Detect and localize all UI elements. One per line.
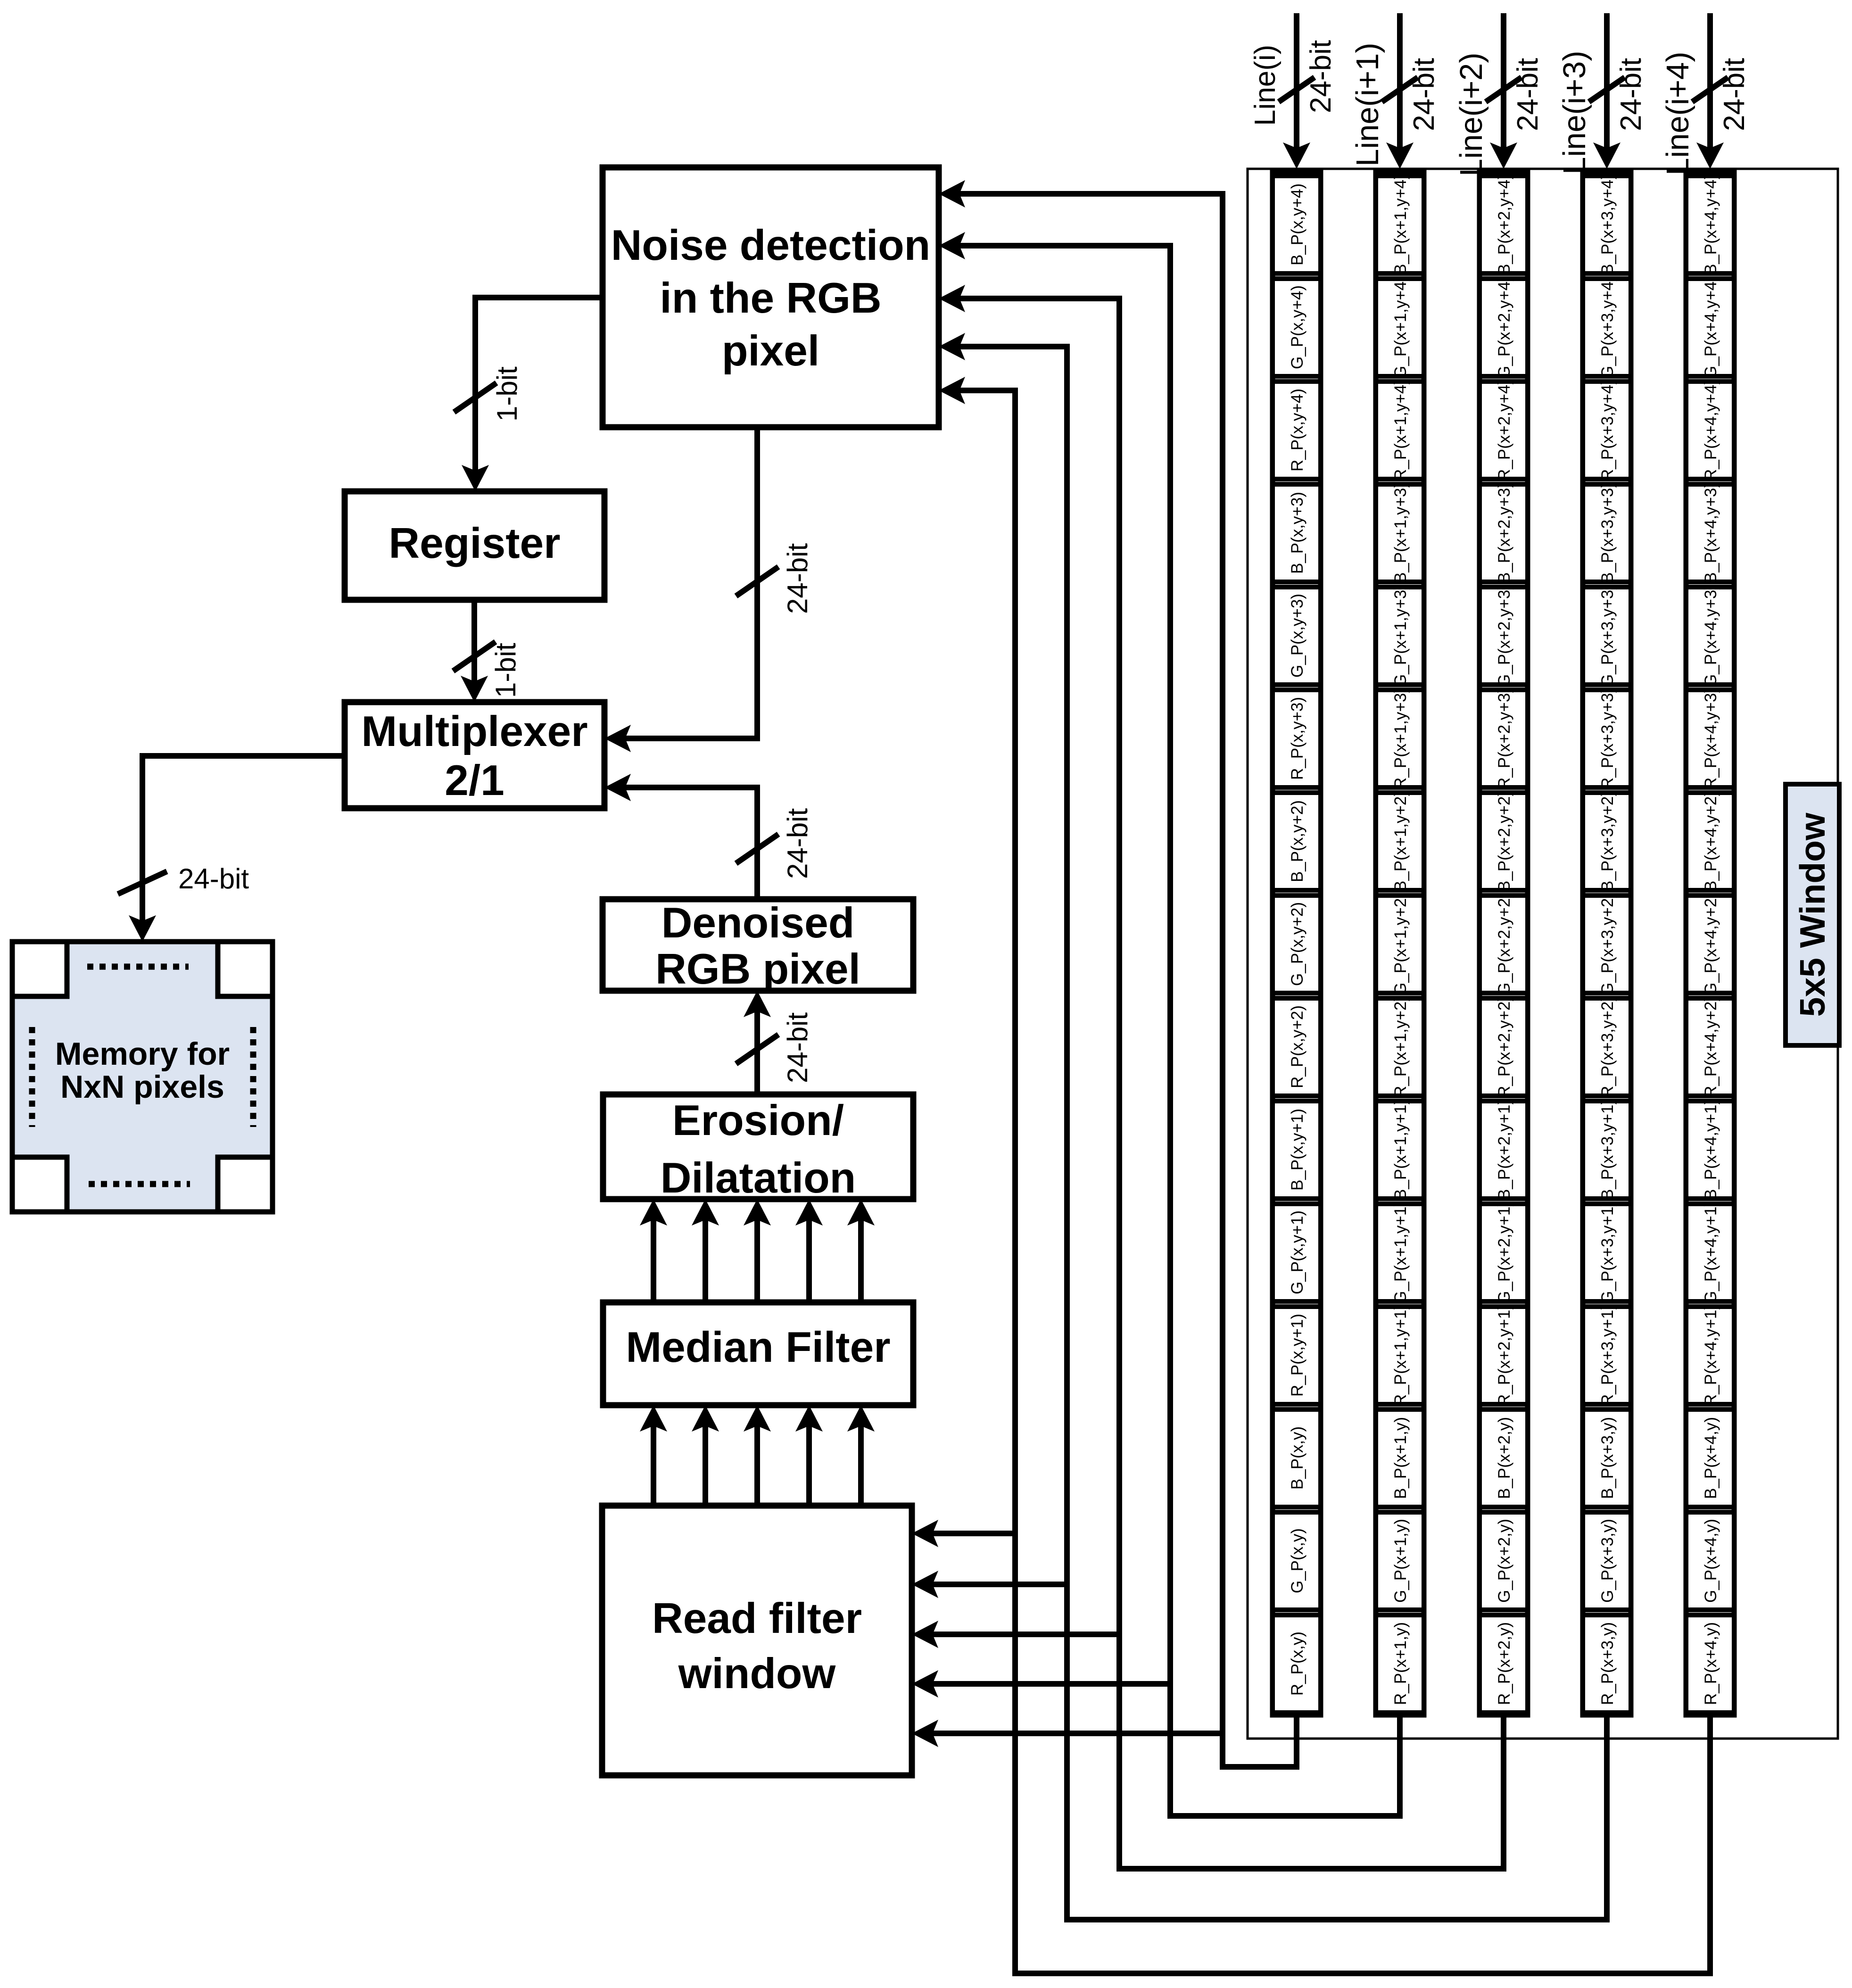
svg-text:R_P(x,y+1): R_P(x,y+1) [1288,1314,1306,1397]
cell B_P(x+4,y+1) [1686,1099,1734,1200]
svg-text:G_P(x+1,y+3): G_P(x+1,y+3) [1391,584,1410,687]
svg-text:RGB pixel: RGB pixel [655,945,860,993]
svg-text:B_P(x+1,y+4): B_P(x+1,y+4) [1391,174,1410,275]
svg-text:R_P(x+1,y): R_P(x+1,y) [1391,1622,1410,1705]
svg-text:B_P(x+3,y+2): B_P(x+3,y+2) [1598,791,1617,892]
svg-text:B_P(x,y+4): B_P(x,y+4) [1288,183,1306,265]
cell R_P(x+4,y+3) [1686,688,1734,789]
svg-text:R_P(x+4,y): R_P(x+4,y) [1702,1622,1720,1705]
wire: input bus Line(i+4) into 5x5 window [1696,13,1724,169]
cell R_P(x+3,y+1) [1583,1304,1631,1406]
column 1 register stack frame [1273,172,1321,1715]
cell B_P(x+2,y) [1480,1409,1528,1507]
cell G_P(x+1,y+2) [1376,893,1424,995]
cell G_P(x,y+4) [1273,279,1321,376]
cell G_P(x+2,y+3) [1480,584,1528,687]
memory block: Memory for NxN pixels [12,942,273,1212]
cell R_P(x+2,y+4) [1480,379,1528,481]
cell G_P(x,y) [1273,1512,1321,1610]
column 3 register stack frame [1480,172,1528,1715]
wire: Noise detection to Multiplexer (24-bit) [604,427,757,752]
svg-text:Line(i+1): Line(i+1) [1350,42,1385,166]
svg-text:5x5 Window: 5x5 Window [1793,812,1832,1017]
svg-text:24-bit: 24-bit [178,863,249,895]
svg-text:B_P(x+2,y+1): B_P(x+2,y+1) [1495,1099,1513,1200]
svg-text:R_P(x+1,y+1): R_P(x+1,y+1) [1391,1304,1410,1406]
cell G_P(x+2,y) [1480,1512,1528,1610]
svg-text:G_P(x+1,y+4): G_P(x+1,y+4) [1391,276,1410,379]
svg-text:24-bit: 24-bit [1718,58,1751,131]
cell G_P(x+4,y+2) [1686,893,1734,995]
block U7: Read filter window [602,1506,912,1775]
svg-text:G_P(x+3,y+4): G_P(x+3,y+4) [1598,276,1617,379]
svg-text:Read filter: Read filter [652,1595,862,1642]
svg-text:2/1: 2/1 [445,757,504,804]
svg-text:G_P(x+4,y+2): G_P(x+4,y+2) [1702,893,1720,995]
wire: column 2 data loop (to Noise detection input 2) [939,232,1403,1819]
svg-text:R_P(x+4,y+2): R_P(x+4,y+2) [1702,996,1720,1098]
bus slash 24-bit (erosion to denoised) [736,1035,778,1064]
cell B_P(x+3,y+1) [1583,1099,1631,1200]
svg-text:B_P(x+2,y): B_P(x+2,y) [1495,1417,1513,1499]
wire: branch from riser 1 into Read filter window [912,1720,1225,1747]
svg-text:G_P(x+2,y+4): G_P(x+2,y+4) [1495,276,1513,379]
svg-text:G_P(x+2,y+3): G_P(x+2,y+3) [1495,584,1513,687]
svg-text:Erosion/: Erosion/ [672,1097,844,1144]
cell G_P(x+2,y+2) [1480,893,1528,995]
wire: Multiplexer output to Memory (24-bit) [129,756,345,942]
cell G_P(x+1,y) [1376,1512,1424,1610]
svg-text:R_P(x+3,y+1): R_P(x+3,y+1) [1598,1304,1617,1406]
cell G_P(x+4,y) [1686,1512,1734,1610]
svg-text:Multiplexer: Multiplexer [361,708,587,755]
block U2: Register [345,491,604,600]
cell B_P(x+4,y+3) [1686,482,1734,583]
cell G_P(x+3,y+1) [1583,1201,1631,1304]
wire: Register to Multiplexer (1-bit) [461,600,488,702]
wire: Median Filter to Erosion/Dilatation arrow 2 [692,1199,719,1302]
label box: 5x5 Window [1786,784,1839,1045]
bus-width slash on Line(i+4) [1692,77,1728,102]
svg-text:R_P(x+3,y+3): R_P(x+3,y+3) [1598,688,1617,789]
svg-text:G_P(x+2,y): G_P(x+2,y) [1495,1519,1513,1603]
svg-text:B_P(x+2,y+3): B_P(x+2,y+3) [1495,482,1513,583]
wire: branch from riser 4 into Read filter window [912,1571,1070,1598]
wire: Denoised RGB pixel to Multiplexer (24-bit) [604,774,757,899]
svg-text:B_P(x+4,y+2): B_P(x+4,y+2) [1702,791,1720,892]
bus slash 1-bit (register to mux) [453,642,496,671]
wire: Erosion/Dilatation to Denoised RGB pixel (24-bit) [744,991,771,1094]
svg-text:24-bit: 24-bit [1408,58,1440,131]
block U5: Erosion/Dilatation [603,1094,913,1199]
cell B_P(x,y+3) [1273,484,1321,582]
cell B_P(x+2,y+1) [1480,1099,1528,1200]
svg-text:B_P(x,y+3): B_P(x,y+3) [1288,492,1306,574]
column 4 register stack frame [1583,172,1631,1715]
cell R_P(x+1,y+4) [1376,379,1424,481]
cell B_P(x+2,y+3) [1480,482,1528,583]
wire: column 5 data loop (to Noise detection input 5) [939,377,1713,1976]
cell B_P(x+4,y+2) [1686,791,1734,892]
svg-text:B_P(x,y+2): B_P(x,y+2) [1288,800,1306,882]
cell B_P(x+4,y) [1686,1409,1734,1507]
cell G_P(x+3,y+4) [1583,276,1631,379]
cell G_P(x+4,y+4) [1686,276,1734,379]
svg-text:G_P(x+4,y+3): G_P(x+4,y+3) [1702,584,1720,687]
svg-text:R_P(x+2,y+1): R_P(x+2,y+1) [1495,1304,1513,1406]
cell R_P(x+1,y+1) [1376,1304,1424,1406]
bus slash 24-bit (denoised to mux) [736,834,778,863]
svg-text:24-bit: 24-bit [1512,58,1544,131]
svg-text:G_P(x+3,y+3): G_P(x+3,y+3) [1598,584,1617,687]
cell R_P(x+4,y) [1686,1615,1734,1713]
column 5 register stack frame [1686,172,1734,1715]
svg-text:B_P(x,y+1): B_P(x,y+1) [1288,1109,1306,1191]
cell G_P(x+4,y+1) [1686,1201,1734,1304]
svg-text:R_P(x,y+4): R_P(x,y+4) [1288,389,1306,472]
svg-text:B_P(x+1,y+3): B_P(x+1,y+3) [1391,482,1410,583]
cell B_P(x,y+2) [1273,793,1321,890]
cell R_P(x,y+1) [1273,1307,1321,1404]
cell G_P(x+3,y+3) [1583,584,1631,687]
svg-text:R_P(x+3,y+2): R_P(x+3,y+2) [1598,996,1617,1098]
svg-text:G_P(x+3,y+2): G_P(x+3,y+2) [1598,893,1617,995]
svg-text:B_P(x+4,y): B_P(x+4,y) [1702,1417,1720,1499]
cell B_P(x+1,y+1) [1376,1099,1424,1200]
wire: Median Filter to Erosion/Dilatation arrow 5 [847,1199,875,1302]
svg-text:G_P(x+4,y+1): G_P(x+4,y+1) [1702,1201,1720,1304]
svg-text:G_P(x+3,y+1): G_P(x+3,y+1) [1598,1201,1617,1304]
svg-text:in the RGB: in the RGB [660,274,881,322]
svg-text:B_P(x,y): B_P(x,y) [1288,1426,1306,1490]
wire: Read filter window to Median Filter arrow 3 [744,1405,771,1506]
cell G_P(x+2,y+1) [1480,1201,1528,1304]
cell B_P(x,y+4) [1273,176,1321,273]
cell B_P(x+3,y+2) [1583,791,1631,892]
svg-text:G_P(x+4,y): G_P(x+4,y) [1702,1519,1720,1603]
svg-text:R_P(x,y+2): R_P(x,y+2) [1288,1005,1306,1088]
svg-text:window: window [678,1650,836,1698]
cell B_P(x+1,y+3) [1376,482,1424,583]
svg-text:B_P(x+1,y+1): B_P(x+1,y+1) [1391,1099,1410,1200]
svg-text:Line(i+2): Line(i+2) [1454,52,1489,176]
wire: branch from riser 3 into Read filter window [912,1621,1122,1648]
cell R_P(x+1,y) [1376,1615,1424,1713]
cell R_P(x+1,y+2) [1376,996,1424,1098]
wire: input bus Line(i+1) into 5x5 window [1386,13,1414,169]
wire: branch from riser 2 into Read filter window [912,1670,1173,1698]
cell G_P(x+1,y+1) [1376,1201,1424,1304]
cell B_P(x+2,y+4) [1480,174,1528,275]
svg-text:NxN pixels: NxN pixels [60,1069,224,1105]
cell R_P(x+2,y+2) [1480,996,1528,1098]
cell R_P(x+3,y+2) [1583,996,1631,1098]
cell R_P(x,y) [1273,1615,1321,1713]
wire: column 1 data loop (to Noise detection input 1) [939,180,1299,1770]
column 2 register stack frame [1376,172,1424,1715]
bus slash 24-bit (mux to memory) [118,871,167,894]
svg-text:B_P(x+4,y+3): B_P(x+4,y+3) [1702,482,1720,583]
cell R_P(x,y+4) [1273,381,1321,479]
svg-text:Denoised: Denoised [661,899,855,947]
cell G_P(x,y+1) [1273,1204,1321,1301]
cell R_P(x+1,y+3) [1376,688,1424,789]
cell R_P(x+2,y+3) [1480,688,1528,789]
wire: column 4 data loop (to Noise detection input 4) [939,333,1610,1922]
svg-text:24-bit: 24-bit [782,543,813,614]
wire: input bus Line(i+2) into 5x5 window [1490,13,1517,169]
cell B_P(x+1,y) [1376,1409,1424,1507]
svg-text:24-bit: 24-bit [782,1012,813,1083]
svg-text:B_P(x+3,y): B_P(x+3,y) [1598,1417,1617,1499]
svg-text:Line(i+4): Line(i+4) [1660,51,1695,175]
cell G_P(x,y+3) [1273,587,1321,685]
svg-text:G_P(x+2,y+1): G_P(x+2,y+1) [1495,1201,1513,1304]
svg-text:Line(i+3): Line(i+3) [1557,50,1592,174]
block U4: Denoised RGB pixel [603,899,913,991]
svg-text:1-bit: 1-bit [491,366,523,422]
svg-text:R_P(x+2,y+4): R_P(x+2,y+4) [1495,379,1513,481]
cell B_P(x+1,y+2) [1376,791,1424,892]
svg-text:24-bit: 24-bit [1305,40,1337,113]
cell G_P(x+2,y+4) [1480,276,1528,379]
svg-text:G_P(x,y+3): G_P(x,y+3) [1288,594,1306,678]
wire: Read filter window to Median Filter arrow 1 [640,1405,667,1506]
svg-text:B_P(x+3,y+4): B_P(x+3,y+4) [1598,174,1617,275]
svg-text:R_P(x+1,y+4): R_P(x+1,y+4) [1391,379,1410,481]
svg-text:G_P(x+1,y+1): G_P(x+1,y+1) [1391,1201,1410,1304]
svg-text:B_P(x+2,y+2): B_P(x+2,y+2) [1495,791,1513,892]
svg-text:B_P(x+1,y): B_P(x+1,y) [1391,1417,1410,1499]
svg-text:Median Filter: Median Filter [626,1324,890,1371]
svg-text:24-bit: 24-bit [1615,58,1647,131]
cell G_P(x+1,y+3) [1376,584,1424,687]
svg-text:G_P(x,y): G_P(x,y) [1288,1528,1306,1593]
bus-width slash on Line(i+0) [1279,77,1315,102]
bus-width slash on Line(i+1) [1382,77,1418,102]
cell B_P(x+3,y) [1583,1409,1631,1507]
svg-text:R_P(x+4,y+3): R_P(x+4,y+3) [1702,688,1720,789]
wire: branch from riser 5 into Read filter window [912,1520,1018,1547]
cell G_P(x+3,y+2) [1583,893,1631,995]
wire: Median Filter to Erosion/Dilatation arrow 4 [795,1199,823,1302]
cell R_P(x,y+2) [1273,998,1321,1096]
cell R_P(x+4,y+1) [1686,1304,1734,1406]
cell B_P(x,y+1) [1273,1101,1321,1199]
svg-text:Noise detection: Noise detection [611,222,931,269]
svg-text:G_P(x+1,y): G_P(x+1,y) [1391,1519,1410,1603]
svg-text:R_P(x+1,y+2): R_P(x+1,y+2) [1391,996,1410,1098]
cell R_P(x,y+3) [1273,690,1321,787]
svg-text:G_P(x+4,y+4): G_P(x+4,y+4) [1702,276,1720,379]
svg-text:G_P(x,y+1): G_P(x,y+1) [1288,1210,1306,1294]
cell G_P(x+1,y+4) [1376,276,1424,379]
svg-text:B_P(x+4,y+1): B_P(x+4,y+1) [1702,1099,1720,1200]
cell B_P(x+1,y+4) [1376,174,1424,275]
svg-text:R_P(x,y+3): R_P(x,y+3) [1288,697,1306,780]
bus slash 24-bit (noise to mux) [736,567,778,596]
svg-text:Memory for: Memory for [55,1036,230,1072]
wire: input bus Line(i+3) into 5x5 window [1593,13,1620,169]
bus-width slash on Line(i+2) [1486,77,1521,102]
cell R_P(x+4,y+4) [1686,379,1734,481]
svg-text:R_P(x+3,y+4): R_P(x+3,y+4) [1598,379,1617,481]
svg-text:R_P(x,y): R_P(x,y) [1288,1632,1306,1696]
cell R_P(x+3,y) [1583,1615,1631,1713]
cell R_P(x+2,y) [1480,1615,1528,1713]
cell B_P(x+4,y+4) [1686,174,1734,275]
cell G_P(x+3,y) [1583,1512,1631,1610]
cell R_P(x+3,y+4) [1583,379,1631,481]
cell R_P(x+3,y+3) [1583,688,1631,789]
svg-text:G_P(x+1,y+2): G_P(x+1,y+2) [1391,893,1410,995]
svg-text:B_P(x+2,y+4): B_P(x+2,y+4) [1495,174,1513,275]
svg-text:R_P(x+3,y): R_P(x+3,y) [1598,1622,1617,1705]
svg-text:G_P(x+3,y): G_P(x+3,y) [1598,1519,1617,1603]
svg-text:B_P(x+3,y+3): B_P(x+3,y+3) [1598,482,1617,583]
bus slash 1-bit (noise to register) [454,383,496,412]
cell B_P(x,y) [1273,1409,1321,1507]
svg-text:R_P(x+4,y+4): R_P(x+4,y+4) [1702,379,1720,481]
cell R_P(x+2,y+1) [1480,1304,1528,1406]
svg-text:R_P(x+2,y): R_P(x+2,y) [1495,1622,1513,1705]
svg-text:R_P(x+4,y+1): R_P(x+4,y+1) [1702,1304,1720,1406]
svg-text:1-bit: 1-bit [490,643,521,698]
cell R_P(x+4,y+2) [1686,996,1734,1098]
svg-text:R_P(x+2,y+2): R_P(x+2,y+2) [1495,996,1513,1098]
svg-text:G_P(x,y+4): G_P(x,y+4) [1288,285,1306,369]
block U3: Multiplexer 2/1 [345,702,604,808]
svg-text:Dilatation: Dilatation [661,1154,856,1202]
svg-text:Line(i): Line(i) [1249,45,1282,126]
cell B_P(x+3,y+3) [1583,482,1631,583]
wire: Read filter window to Median Filter arrow 2 [692,1405,719,1506]
wire: input bus Line(i+0) into 5x5 window [1283,13,1310,169]
cell G_P(x+4,y+3) [1686,584,1734,687]
cell G_P(x,y+2) [1273,895,1321,993]
svg-text:Register: Register [389,520,560,567]
svg-text:G_P(x+2,y+2): G_P(x+2,y+2) [1495,893,1513,995]
wire: Median Filter to Erosion/Dilatation arrow 3 [744,1199,771,1302]
wire: Noise detection output to Register (1-bit) [462,298,603,491]
svg-text:B_P(x+4,y+4): B_P(x+4,y+4) [1702,174,1720,275]
svg-text:24-bit: 24-bit [782,808,813,879]
5x5 window outer frame [1248,169,1838,1739]
block U6: Median Filter [603,1302,913,1405]
bus-width slash on Line(i+3) [1589,77,1625,102]
svg-text:R_P(x+1,y+3): R_P(x+1,y+3) [1391,688,1410,789]
svg-text:B_P(x+1,y+2): B_P(x+1,y+2) [1391,791,1410,892]
wire: Median Filter to Erosion/Dilatation arrow 1 [640,1199,667,1302]
wire: column 3 data loop (to Noise detection input 3) [939,285,1506,1872]
svg-text:G_P(x,y+2): G_P(x,y+2) [1288,902,1306,986]
svg-text:pixel: pixel [722,327,819,375]
svg-text:R_P(x+2,y+3): R_P(x+2,y+3) [1495,688,1513,789]
wire: Read filter window to Median Filter arrow 4 [795,1405,823,1506]
svg-text:B_P(x+3,y+1): B_P(x+3,y+1) [1598,1099,1617,1200]
block U1: Noise detection in the RGB pixel [603,167,939,427]
cell B_P(x+3,y+4) [1583,174,1631,275]
wire: Read filter window to Median Filter arrow 5 [847,1405,875,1506]
cell B_P(x+2,y+2) [1480,791,1528,892]
